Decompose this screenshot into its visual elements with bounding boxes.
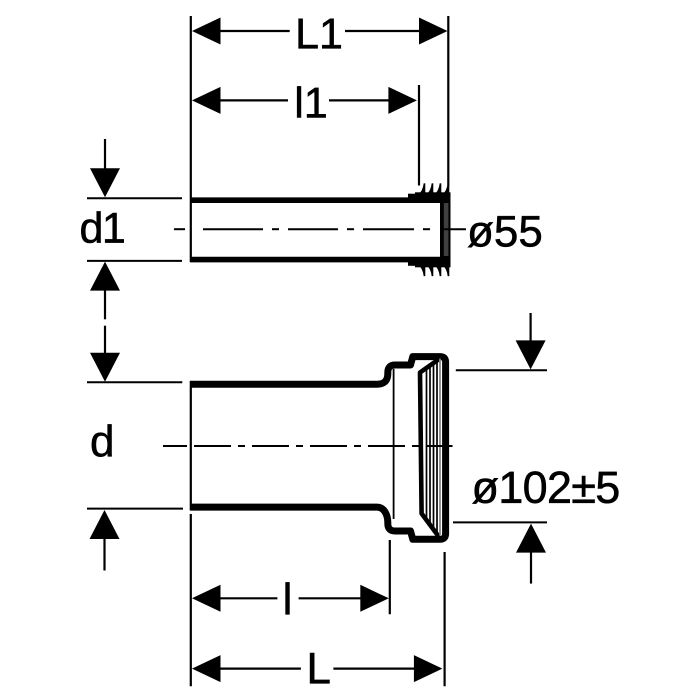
pipe 2 socket depth line [393, 369, 395, 519]
label l1 [297, 86, 325, 117]
node L1 dimension line [192, 18, 448, 45]
label l [286, 582, 290, 614]
wire: left extension line x=190 (top figure) [190, 16, 192, 262]
wire: extension line y=508.6 [87, 508, 183, 510]
node L dimension line [192, 655, 442, 682]
pipe 2 outline (lower pipe with socket) [190, 357, 446, 540]
wire: left extension line x=190 (bottom) [190, 514, 192, 686]
wire: right extension line x=448 for L1 [447, 16, 449, 186]
label L1 [299, 19, 341, 49]
node d1 upper arrow [90, 139, 120, 197]
pipe 2 socket inner rim [420, 360, 439, 537]
pipe 1 body (upper flush pipe) [190, 200, 442, 259]
wire: extension line y=522.4 right [453, 521, 547, 523]
pipe 1 thread fins top [418, 183, 448, 200]
pipe 1 threaded end cap [440, 195, 451, 264]
wire: extension line y=198 [87, 197, 182, 199]
wire: extension line x=419 for l1 [418, 85, 420, 186]
label ø55 [468, 216, 541, 247]
label L [310, 653, 329, 683]
pipe 1 thread base strips [408, 192, 451, 267]
node l1 dimension line [192, 87, 417, 114]
wire: extension line y=370 right [456, 369, 547, 371]
label d [92, 424, 112, 456]
pipe 2 centerline [163, 445, 453, 447]
label d1 [81, 211, 123, 243]
pipe 2 socket hatch lines [427, 359, 441, 536]
node arrow pointing to top of lower pipe [90, 326, 120, 382]
node l dimension line [192, 585, 389, 612]
wire: extension line y=261 [87, 260, 182, 262]
pipe 1 centerline [174, 228, 466, 230]
wire: extension line x=444.6 for L [444, 552, 446, 686]
node d lower arrow [90, 510, 120, 571]
wire: extension line x=390 for l [389, 540, 391, 614]
pipe 2 left edge [190, 381, 192, 510]
wire: extension line y=382 [87, 381, 182, 383]
node d1 lower arrow [90, 262, 120, 320]
pipe 1 thread fins bottom [418, 260, 448, 277]
node ø102 lower arrow [516, 524, 546, 584]
node ø102 upper arrow [516, 313, 546, 369]
label ø102±5 [472, 471, 618, 503]
